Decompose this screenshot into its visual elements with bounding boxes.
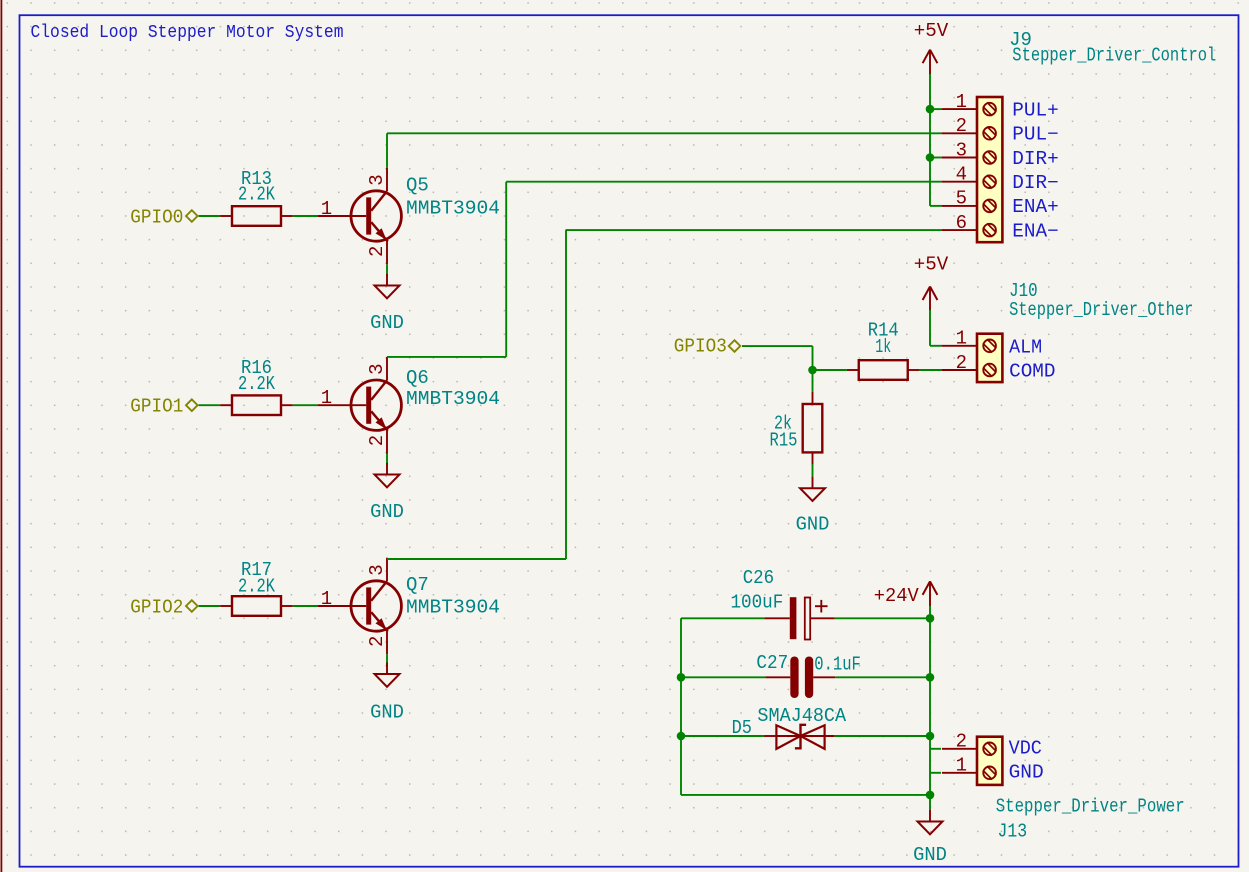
- svg-text:ALM: ALM: [1009, 336, 1042, 358]
- svg-text:PUL−: PUL−: [1012, 124, 1059, 146]
- svg-text:PUL+: PUL+: [1012, 99, 1059, 121]
- svg-text:3: 3: [366, 174, 388, 185]
- svg-text:Q6: Q6: [406, 367, 429, 389]
- svg-text:GND: GND: [370, 702, 404, 724]
- svg-text:+5V: +5V: [914, 20, 949, 42]
- svg-text:GND: GND: [370, 312, 404, 334]
- svg-text:MMBT3904: MMBT3904: [406, 198, 500, 220]
- svg-text:3: 3: [366, 363, 388, 374]
- svg-text:GPIO2: GPIO2: [130, 596, 183, 618]
- svg-text:ENA−: ENA−: [1012, 220, 1059, 242]
- svg-text:C26: C26: [743, 567, 774, 589]
- svg-text:0.1uF: 0.1uF: [814, 653, 861, 675]
- svg-text:Q5: Q5: [406, 175, 429, 197]
- svg-text:4: 4: [956, 164, 967, 186]
- svg-text:GPIO3: GPIO3: [674, 336, 727, 358]
- svg-text:J13: J13: [998, 820, 1028, 842]
- svg-text:SMAJ48CA: SMAJ48CA: [757, 705, 846, 727]
- svg-text:2.2K: 2.2K: [238, 373, 275, 395]
- svg-text:2.2K: 2.2K: [238, 576, 275, 598]
- svg-text:Closed Loop Stepper Motor Syst: Closed Loop Stepper Motor System: [31, 22, 344, 43]
- svg-text:GND: GND: [370, 501, 404, 523]
- svg-text:2: 2: [956, 352, 967, 374]
- svg-text:Stepper_Driver_Other: Stepper_Driver_Other: [1009, 299, 1193, 321]
- svg-text:1: 1: [956, 328, 967, 350]
- svg-text:6: 6: [956, 212, 967, 234]
- svg-text:R15: R15: [770, 430, 798, 452]
- svg-text:2: 2: [366, 636, 388, 647]
- svg-text:GPIO1: GPIO1: [130, 396, 183, 418]
- svg-text:MMBT3904: MMBT3904: [406, 597, 500, 619]
- svg-text:D5: D5: [732, 717, 752, 739]
- svg-text:DIR−: DIR−: [1012, 172, 1059, 194]
- svg-text:C27: C27: [756, 652, 788, 674]
- svg-text:5: 5: [956, 188, 967, 210]
- svg-text:+24V: +24V: [874, 585, 920, 607]
- svg-text:1: 1: [321, 588, 332, 610]
- svg-text:GND: GND: [913, 844, 947, 866]
- svg-text:1: 1: [956, 91, 967, 113]
- svg-text:2: 2: [366, 435, 388, 446]
- svg-text:1: 1: [321, 387, 332, 409]
- svg-text:Stepper_Driver_Power: Stepper_Driver_Power: [996, 795, 1185, 817]
- svg-text:Stepper_Driver_Control: Stepper_Driver_Control: [1012, 45, 1216, 67]
- svg-text:Q7: Q7: [406, 574, 429, 596]
- svg-text:+5V: +5V: [914, 254, 949, 276]
- svg-text:GND: GND: [796, 514, 830, 536]
- svg-text:2: 2: [366, 246, 388, 257]
- svg-text:GND: GND: [1009, 762, 1044, 784]
- svg-text:COMD: COMD: [1009, 361, 1055, 383]
- svg-text:1: 1: [956, 755, 967, 777]
- svg-text:3: 3: [956, 139, 967, 161]
- svg-text:ENA+: ENA+: [1012, 196, 1059, 218]
- svg-text:1: 1: [321, 198, 332, 220]
- svg-text:DIR+: DIR+: [1012, 148, 1059, 170]
- svg-text:3: 3: [366, 564, 388, 575]
- svg-text:2: 2: [956, 731, 967, 753]
- svg-text:GPIO0: GPIO0: [130, 206, 183, 228]
- svg-text:2.2K: 2.2K: [238, 184, 275, 206]
- svg-text:MMBT3904: MMBT3904: [406, 388, 500, 410]
- svg-text:2: 2: [956, 115, 967, 137]
- svg-text:VDC: VDC: [1009, 738, 1042, 760]
- svg-text:100uF: 100uF: [731, 592, 784, 614]
- svg-text:1k: 1k: [875, 336, 891, 358]
